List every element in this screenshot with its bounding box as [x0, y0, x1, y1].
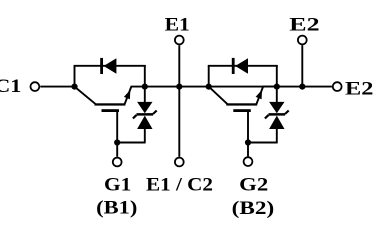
diode D1 — [100, 58, 116, 74]
IGBT Q2 — [209, 87, 277, 157]
svg-text:E2: E2 — [289, 14, 319, 35]
terminal C1 circle — [31, 82, 40, 91]
junction node E2 on rail — [299, 84, 305, 90]
zener Z1 (gate-emitter clamp) — [117, 87, 157, 143]
emitter arrow Q1 — [124, 90, 130, 99]
svg-text:E2: E2 — [345, 79, 373, 100]
junction node G1 lead — [114, 139, 120, 145]
terminal G2 circle — [244, 157, 253, 166]
channel bar Q2 — [226, 103, 257, 105]
junction node A1 — [71, 84, 77, 90]
terminal E1/C2 circle — [175, 158, 184, 167]
wire A1 riser — [74, 66, 76, 88]
junction node E1 on rail — [176, 84, 182, 90]
gate bar Q1 — [102, 109, 120, 112]
wire B1 drop — [144, 65, 146, 87]
junction node B2 — [274, 84, 280, 90]
channel bar Q1 — [95, 103, 126, 105]
junction node G2 lead — [245, 139, 251, 145]
collector diagonal Q1 — [75, 87, 96, 105]
svg-text:E1 / C2: E1 / C2 — [146, 175, 213, 196]
gate lead Q1 — [116, 111, 118, 157]
wire emitter rail B1 to E2 — [145, 86, 332, 88]
emitter diagonal Q2 — [256, 87, 276, 105]
wire top branch 1 — [74, 65, 146, 67]
wire E1 vertical — [178, 45, 180, 157]
svg-text:G1: G1 — [104, 174, 131, 195]
terminal G1 circle — [113, 158, 122, 167]
emitter arrow Q2 — [256, 90, 262, 99]
svg-text:(B2): (B2) — [232, 198, 275, 219]
collector diagonal Q2 — [209, 87, 228, 105]
svg-text:(B1): (B1) — [96, 197, 137, 218]
zener Z2 (gate-emitter clamp) — [248, 87, 289, 143]
gate bar Q2 — [233, 109, 251, 112]
IGBT Q1 — [75, 87, 145, 157]
terminal E2 right circle — [333, 82, 342, 91]
svg-text:E1: E1 — [165, 14, 190, 35]
wire B2 drop — [276, 65, 278, 87]
terminal E2 top circle — [298, 36, 307, 45]
terminal E1 top circle — [175, 36, 184, 45]
wire C1 to node A1 — [40, 86, 74, 88]
svg-text:C1: C1 — [0, 76, 21, 97]
gate lead Q2 — [247, 111, 249, 156]
wire E2 top vertical — [301, 45, 303, 86]
wire A2 riser — [208, 66, 210, 88]
junction node B1 — [142, 84, 148, 90]
junction node A2 — [206, 84, 212, 90]
diode D2 — [232, 58, 248, 74]
svg-text:G2: G2 — [239, 174, 268, 195]
wire top branch 2 — [208, 65, 278, 67]
emitter diagonal Q1 — [125, 87, 145, 105]
